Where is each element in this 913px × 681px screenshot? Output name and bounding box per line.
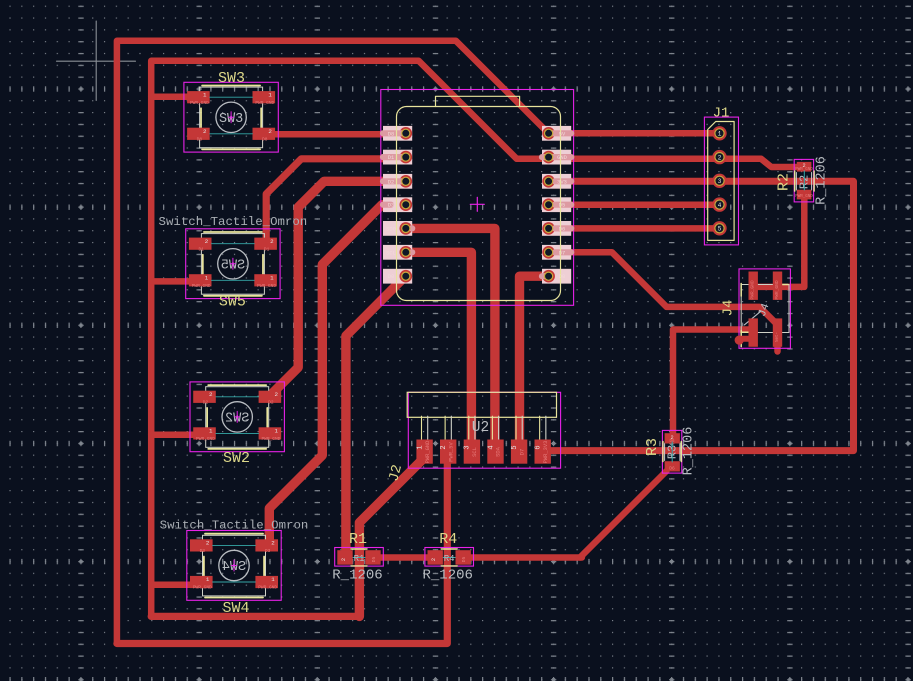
wire GND left vertical [151, 61, 719, 617]
connector J4 [739, 269, 790, 348]
svg-text:2: 2 [209, 391, 213, 398]
svg-text:SW2: SW2 [223, 450, 250, 467]
wire module to J1 pad5 [549, 225, 720, 232]
svg-text:SDA: SDA [496, 446, 502, 456]
wire GND left rail [151, 613, 359, 620]
wire D6 J4 to R3 [673, 330, 750, 439]
svg-text:D1: D1 [388, 155, 394, 161]
svg-text:D8: D8 [197, 137, 203, 143]
svg-text:R2: R2 [776, 173, 793, 191]
svg-text:3V3: 3V3 [557, 179, 567, 185]
svg-text:1: 1 [205, 274, 209, 281]
wire 5V outer loop [117, 462, 447, 644]
svg-text:D7: D7 [559, 250, 565, 256]
module U1 body silk [397, 107, 561, 301]
svg-text:R_1206: R_1206 [422, 567, 472, 583]
wire D7 module to J2 [520, 276, 549, 450]
svg-text:2: 2 [206, 540, 210, 547]
svg-text:R_1206: R_1206 [332, 567, 382, 583]
wire 3V3 module J1 J2 [543, 181, 854, 450]
svg-text:4: 4 [718, 202, 722, 209]
module U1 right pads [542, 126, 571, 141]
connector J2 [408, 392, 560, 468]
wire D5 R3 to R4 [580, 471, 667, 558]
svg-text:PWR_GND: PWR_GND [750, 280, 756, 300]
wire R4 to R3 diag joint [466, 554, 582, 561]
wire GND to SW5 [151, 278, 192, 285]
wire GND to SW3 [151, 94, 190, 101]
svg-text:D1: D1 [264, 246, 270, 252]
svg-text:6: 6 [535, 445, 543, 449]
svg-text:D1: D1 [198, 246, 204, 252]
wire SDA module to J2 [404, 228, 495, 450]
svg-text:D2: D2 [268, 400, 274, 406]
svg-text:D3: D3 [200, 548, 206, 554]
svg-text:1: 1 [416, 445, 424, 449]
svg-text:2: 2 [274, 391, 278, 398]
wire PWR_GND J2 pad1 down [359, 460, 422, 616]
switch SW5 [186, 229, 280, 299]
wire J4 pad4 stub [774, 345, 781, 352]
resistor R3 [662, 430, 681, 473]
svg-text:2: 2 [205, 238, 209, 245]
svg-text:SW5: SW5 [219, 294, 246, 311]
svg-text:2: 2 [203, 128, 207, 135]
svg-text:PWR_GND: PWR_GND [774, 280, 780, 300]
wire 5V left rail [117, 41, 720, 644]
resistor R2 [794, 159, 813, 202]
svg-text:R4: R4 [444, 554, 455, 564]
svg-text:J4: J4 [721, 300, 737, 317]
svg-text:D5: D5 [371, 557, 377, 563]
svg-text:D6: D6 [559, 226, 565, 232]
switch SW2 [190, 382, 284, 452]
svg-text:D5: D5 [461, 557, 467, 563]
svg-text:4: 4 [487, 445, 495, 449]
svg-text:2: 2 [341, 558, 347, 561]
module pad trace overlays [383, 130, 403, 136]
svg-text:PWR_GND: PWR_GND [795, 195, 813, 199]
wire D3 module to SW4 [269, 205, 398, 545]
svg-text:Net-: Net- [776, 332, 780, 342]
svg-text:5: 5 [511, 445, 519, 449]
switch SW3 [184, 82, 278, 152]
module U1 courtyard [381, 90, 574, 306]
svg-text:2: 2 [271, 540, 275, 547]
svg-text:D3: D3 [265, 548, 271, 554]
svg-text:5V: 5V [559, 131, 566, 137]
svg-text:PWR_5V: PWR_5V [448, 442, 454, 462]
wire module to J1 pad4 [549, 201, 720, 208]
svg-text:2: 2 [440, 445, 448, 449]
svg-text:D8: D8 [262, 137, 268, 143]
svg-text:3: 3 [464, 445, 472, 449]
svg-text:R_1206: R_1206 [815, 156, 830, 205]
svg-text:R1: R1 [354, 554, 365, 564]
svg-text:R3: R3 [644, 438, 661, 456]
svg-text:PWR_GND: PWR_GND [257, 283, 276, 289]
svg-text:1: 1 [209, 428, 213, 435]
wire GND R2 to J4 [754, 195, 804, 287]
svg-text:2: 2 [268, 128, 272, 135]
module pad holes [402, 129, 410, 137]
svg-text:R_1206: R_1206 [682, 427, 697, 476]
svg-text:PWR_GND: PWR_GND [258, 585, 277, 591]
svg-text:PWR_GND: PWR_GND [193, 585, 212, 591]
svg-text:1: 1 [274, 428, 278, 435]
via near J4 [739, 336, 749, 342]
svg-text:Switch_Tactile_Omron: Switch_Tactile_Omron [160, 519, 309, 533]
svg-text:SCL: SCL [386, 250, 396, 256]
svg-text:GND: GND [557, 155, 567, 161]
svg-text:1: 1 [718, 131, 722, 138]
svg-text:1: 1 [268, 91, 272, 98]
svg-text:1: 1 [206, 576, 210, 583]
svg-text:PWR_GND: PWR_GND [196, 436, 215, 442]
wire GND to SW2 [151, 432, 194, 439]
svg-text:PWR_GND: PWR_GND [261, 436, 280, 442]
svg-text:D0: D0 [559, 274, 565, 280]
svg-text:SW4: SW4 [222, 600, 249, 617]
svg-text:SCL: SCL [472, 447, 478, 457]
svg-text:D7: D7 [519, 449, 525, 455]
wire R1 to R4 [378, 554, 432, 561]
svg-text:R4: R4 [439, 531, 457, 548]
resistor R4 [425, 548, 474, 567]
svg-text:5: 5 [718, 226, 722, 233]
svg-text:D2: D2 [203, 400, 209, 406]
svg-text:PWR_GND: PWR_GND [192, 283, 211, 289]
svg-text:SD0: SD0 [386, 226, 396, 232]
origin crosshair [57, 60, 136, 62]
svg-text:2: 2 [718, 154, 722, 161]
resistor R1 [335, 548, 384, 567]
svg-text:PWR_GND: PWR_GND [190, 100, 209, 106]
wire SCL module to J2 [404, 252, 471, 450]
wire D0 module to R1 [346, 278, 404, 555]
wire D1 module to SW5 [266, 159, 404, 243]
switch SW4 [187, 531, 281, 601]
svg-text:D2: D2 [388, 179, 394, 185]
svg-text:R1: R1 [349, 531, 367, 548]
svg-text:2: 2 [431, 558, 437, 561]
module U1 left pads [383, 126, 412, 141]
connector J1 [704, 117, 738, 245]
svg-text:D5: D5 [559, 203, 565, 209]
svg-text:Switch_Tactile_Omron: Switch_Tactile_Omron [159, 215, 308, 229]
svg-text:D0: D0 [388, 274, 394, 280]
svg-text:D6: D6 [669, 465, 675, 471]
wire GND to SW4 [151, 582, 193, 589]
svg-text:PWR_GND: PWR_GND [425, 441, 431, 464]
svg-text:SW3: SW3 [218, 70, 245, 87]
wire D8 SW3 to module [266, 131, 404, 138]
wire D2 module to SW2 [268, 181, 404, 397]
svg-text:1: 1 [271, 576, 275, 583]
svg-text:3: 3 [718, 178, 722, 185]
svg-text:J1: J1 [713, 106, 730, 122]
svg-text:PWR_GND: PWR_GND [255, 100, 274, 106]
wire GND J1 to R2 [720, 159, 800, 167]
svg-text:1: 1 [203, 91, 207, 98]
svg-text:D3: D3 [388, 203, 394, 209]
svg-text:PWR_3V3: PWR_3V3 [543, 441, 549, 464]
svg-text:U2: U2 [472, 420, 489, 436]
svg-text:D8: D8 [388, 131, 394, 137]
svg-text:2: 2 [270, 238, 274, 245]
module U1 center mark [476, 197, 478, 211]
svg-text:1: 1 [270, 274, 274, 281]
wire D6 module to J4 [549, 252, 778, 324]
module U1 antenna tab [436, 96, 520, 106]
